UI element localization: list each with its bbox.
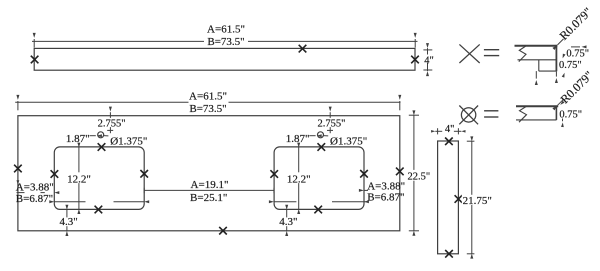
svg-text:4.3": 4.3" xyxy=(59,216,77,228)
svg-text:B=73.5": B=73.5" xyxy=(189,103,226,115)
svg-text:21.75": 21.75" xyxy=(463,195,492,207)
svg-text:4": 4" xyxy=(424,55,434,66)
svg-text:22.5": 22.5" xyxy=(408,172,431,183)
svg-text:Ø1.375": Ø1.375" xyxy=(110,135,147,147)
svg-text:0.75": 0.75" xyxy=(566,48,589,59)
svg-text:A=61.5": A=61.5" xyxy=(189,91,227,103)
svg-text:Ø1.375": Ø1.375" xyxy=(330,135,367,147)
svg-text:B=6.87": B=6.87" xyxy=(16,193,53,205)
svg-text:B=73.5": B=73.5" xyxy=(207,36,244,48)
svg-text:1.87": 1.87" xyxy=(286,133,310,145)
svg-text:B=25.1": B=25.1" xyxy=(190,192,227,204)
svg-text:B=6.87": B=6.87" xyxy=(367,192,404,204)
svg-text:A=61.5": A=61.5" xyxy=(207,24,245,36)
svg-text:A=19.1": A=19.1" xyxy=(191,179,229,191)
svg-text:1.87": 1.87" xyxy=(66,133,90,145)
svg-text:4.3": 4.3" xyxy=(279,216,297,228)
svg-text:2.755": 2.755" xyxy=(317,119,345,130)
svg-text:4": 4" xyxy=(445,124,455,135)
svg-text:0.75": 0.75" xyxy=(559,60,582,71)
svg-text:A=3.88": A=3.88" xyxy=(16,182,54,194)
svg-text:2.755": 2.755" xyxy=(98,119,126,130)
svg-text:12.2": 12.2" xyxy=(287,174,311,186)
svg-text:12.2": 12.2" xyxy=(67,174,91,186)
